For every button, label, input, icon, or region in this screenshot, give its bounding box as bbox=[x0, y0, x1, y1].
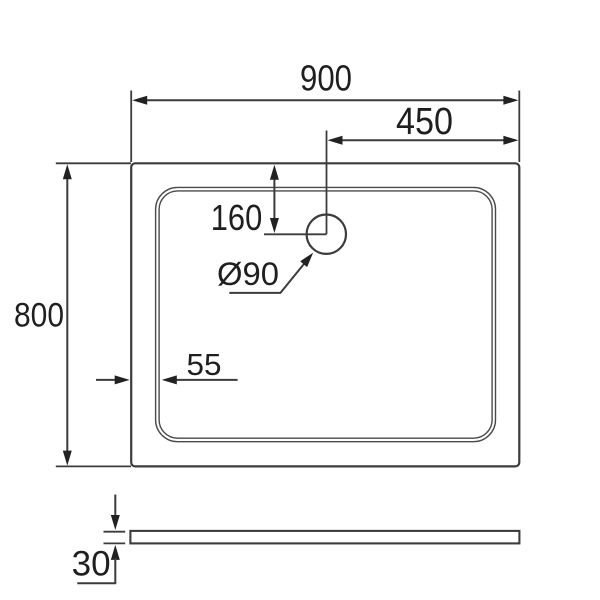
svg-text:450: 450 bbox=[396, 101, 453, 143]
svg-text:30: 30 bbox=[72, 545, 111, 584]
svg-text:160: 160 bbox=[211, 197, 263, 238]
svg-text:800: 800 bbox=[14, 297, 64, 335]
svg-text:Ø90: Ø90 bbox=[217, 256, 279, 292]
svg-text:900: 900 bbox=[300, 58, 352, 99]
svg-text:55: 55 bbox=[187, 347, 222, 382]
